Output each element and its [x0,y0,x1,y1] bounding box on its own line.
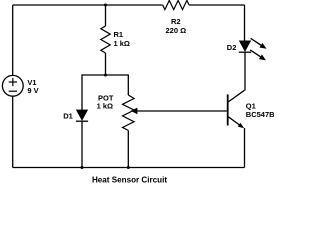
svg-text:1 kΩ: 1 kΩ [97,102,113,111]
svg-text:9 V: 9 V [27,86,38,95]
wire R1 top lead [105,5,107,26]
svg-text:BC547B: BC547B [246,110,274,119]
wire emitter down right side [244,128,246,168]
wire bottom [13,167,245,169]
potentiometer POT [123,95,135,130]
R2 value label [165,17,186,35]
svg-text:220 Ω: 220 Ω [165,26,186,35]
V1 label [27,78,38,95]
voltage source V1 [2,75,23,96]
D2 light arrow 1 [251,38,267,49]
wire R1 bottom lead [105,53,107,75]
R1 value label [114,30,130,48]
wire D1 top lead [81,74,83,110]
svg-text:D1: D1 [63,111,73,120]
resistor R1 [101,26,110,53]
Q1 label [246,102,275,119]
wire right side down to D2 [244,5,246,41]
wire POT top lead [127,74,129,95]
node top junction [104,4,107,7]
node mid junction [104,74,107,77]
wire D2 to transistor collector [244,52,246,90]
node bottom junction D1 [81,166,84,169]
svg-text:D2: D2 [227,43,237,52]
resistor R2 [163,0,189,9]
wire top-left to R2 [13,4,163,6]
svg-text:R1: R1 [114,30,124,39]
POT value label [97,94,114,111]
svg-text:Heat Sensor Circuit: Heat Sensor Circuit [92,175,167,184]
diode D1 [76,110,88,121]
node bottom junction POT [127,166,130,169]
wire mid horizontal [82,74,128,76]
wire D1 bottom lead [81,121,83,167]
POT wiper arrow [131,108,227,115]
wire left above V1 [12,5,14,75]
diode D2 (LED) [239,41,251,52]
svg-text:R2: R2 [171,17,181,26]
transistor Q1 [228,90,245,128]
svg-text:1 kΩ: 1 kΩ [114,39,130,48]
D2 light arrow 2 [250,50,266,61]
wire left below V1 [12,96,14,167]
wire POT bottom lead [127,130,129,167]
wire R2 to top-right corner [189,4,244,6]
